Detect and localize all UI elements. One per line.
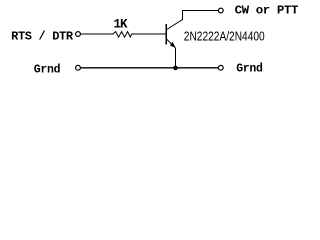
ground wire [81, 67, 219, 69]
label RTS / DTR [11, 30, 74, 44]
svg-text:Grnd: Grnd [236, 63, 263, 76]
part label 2N2222A/2N4400 [184, 28, 265, 43]
wire resistor to base [132, 33, 166, 35]
label CW or PTT [235, 4, 299, 18]
wire terminal to resistor [81, 33, 114, 35]
value label 1K [114, 18, 129, 32]
svg-text:1K: 1K [114, 18, 129, 32]
terminal CW or PTT [218, 8, 223, 13]
svg-text:RTS / DTR: RTS / DTR [11, 30, 74, 44]
svg-text:Grnd: Grnd [34, 63, 61, 76]
label Grnd left [34, 63, 61, 76]
svg-text:2N2222A/2N4400: 2N2222A/2N4400 [184, 28, 265, 43]
resistor 1K [113, 32, 132, 38]
junction dot emitter/ground [173, 66, 178, 71]
label Grnd right [236, 63, 263, 76]
transistor Q1 2N2222A/2N4400 [166, 19, 183, 48]
terminal RTS/DTR [76, 32, 81, 37]
wire emitter drop [175, 48, 177, 68]
terminal Grnd right [218, 65, 223, 70]
svg-text:CW or PTT: CW or PTT [235, 4, 299, 18]
terminal Grnd left [76, 65, 81, 70]
wire collector riser [182, 11, 184, 20]
wire collector to CW terminal [182, 10, 218, 12]
